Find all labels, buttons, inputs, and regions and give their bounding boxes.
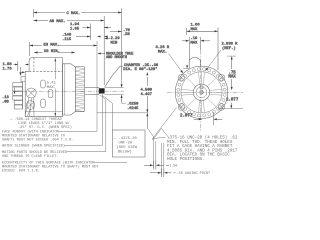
svg-text:EXCEED .004 T.I.R.: EXCEED .004 T.I.R. [2,170,40,174]
mounting flange serrated column [75,67,84,112]
dimension 2.077 right vertical [219,99,244,109]
dimension 4.500 / 4.497 [141,72,153,128]
leader eccentricity [94,161,128,163]
label SHOULDER TRUE AND SMOOTH [97,52,133,60]
leader mating parts [67,151,106,153]
leader from circle to hole note [152,108,177,140]
svg-text:.25″ ST. G.C. (WHEN SPEC): .25″ ST. G.C. (WHEN SPEC) [18,125,72,130]
svg-text:3.26 R: 3.26 R [156,46,170,50]
water slinger leader vertical [102,94,104,145]
svg-text:UNF-2A: UNF-2A [119,142,133,146]
motor body [25,58,62,117]
dimension .70 / .58 [110,29,131,37]
note face runout [2,130,73,143]
svg-text:MIN: MIN [111,41,118,45]
dimension .13 / .08 [2,88,15,105]
svg-text:DIA. E 80°-120°: DIA. E 80°-120° [123,67,157,72]
lifting bump on top [189,57,200,68]
svg-text:MAX: MAX [228,76,236,80]
horizontal centerline [167,91,243,93]
svg-text:AG MAX.: AG MAX. [50,20,66,24]
label 2.938 R (REF.) [205,43,238,72]
svg-text:1.50: 1.50 [169,165,177,169]
svg-text:1.88: 1.88 [3,63,13,67]
note eccentricity [2,161,99,174]
conduit fitting on left side [13,77,25,109]
grease plug circle lower [26,101,35,110]
shaft key (filled) [99,88,105,93]
dimension AG MAX [34,16,105,85]
gaging row .50 gaging point [150,169,210,178]
label 3.26 R MAX [156,46,184,74]
svg-text:2.077: 2.077 [180,115,193,119]
svg-text:1.94: 1.94 [70,23,80,27]
shaft [85,88,99,95]
dimension 2.077 bottom horizontal [180,112,222,125]
svg-text:.50 GAGING POINT: .50 GAGING POINT [177,172,211,176]
svg-text:HOLE POSITIONS.: HOLE POSITIONS. [167,158,205,162]
svg-text:AND SMOOTH: AND SMOOTH [106,56,127,60]
svg-text:2.077: 2.077 [226,99,239,103]
svg-text:4.500: 4.500 [141,89,153,93]
svg-text:ONE THREAD TO CLEAR FILLET.: ONE THREAD TO CLEAR FILLET. [2,155,59,159]
svg-text:.375-16 UNC-2B (4 HOLES) .62: .375-16 UNC-2B (4 HOLES) .62 [167,136,238,141]
svg-text:.08: .08 [2,101,10,105]
short extension left of bump [183,67,189,69]
dimension 2.29 MIN [104,37,120,45]
svg-text:(SEE VIEW: (SEE VIEW [117,145,138,150]
mounting boss holes with cross [178,74,225,110]
dimension 1.66 MAX [187,24,219,71]
svg-text:— .4375-20: — .4375-20 [113,137,138,141]
end bracket [63,64,76,115]
serration hole ring [177,68,226,117]
gaging horizontal line [97,112,147,114]
note box 4375-20 UNF-2A [112,130,145,157]
vertical centerline [200,50,202,131]
svg-text:C MAX.: C MAX. [67,12,81,16]
label CHAMFER [105,64,159,87]
svg-text:.115: .115 [62,38,72,42]
note 500-14 conduit thread [9,118,72,130]
svg-text:(REF.): (REF.) [222,46,236,51]
dimension .19 MAX [182,37,210,69]
conduit box on top of motor [29,58,62,72]
dimension .6250 / .6245 [122,99,140,112]
grease plug circle upper [26,88,36,98]
svg-text:CHAMFER .25-.38: CHAMFER .25-.38 [124,64,159,68]
svg-text:XS MIN.: XS MIN. [44,50,60,54]
leader face runout [59,131,98,133]
dimension .75 MAX right [227,56,236,90]
svg-text:SHAFT) MUST NOT EXCEED .004 T.: SHAFT) MUST NOT EXCEED .004 T.I.R. [2,138,73,143]
leader to gaging rows [147,128,169,175]
hub [193,84,209,100]
spokes [181,72,222,112]
end shield outer circle [175,66,227,118]
svg-text:.140: .140 [62,34,72,38]
note water slinger [2,144,65,149]
svg-text:1.76: 1.76 [3,68,13,72]
svg-text:4.497: 4.497 [141,93,152,97]
dimension XS MIN [34,50,75,54]
gaging row 1.50 [144,161,177,170]
extension line mounting face [96,41,98,131]
vent slots [41,80,53,108]
leader fan to conduit note [25,98,34,117]
dimension 1.94 / 1.85 [70,23,111,40]
svg-text:EH MAX.: EH MAX. [44,43,60,47]
svg-text:.6250: .6250 [127,103,139,107]
svg-text:1.85: 1.85 [70,28,80,32]
dimension 5.41 MAX [54,58,56,116]
svg-text:BELOW): BELOW) [118,150,132,155]
svg-text:.58: .58 [123,33,131,37]
dimension C MAX [34,9,122,81]
inner rim circle [181,72,222,113]
leader arrow at seam [20,71,26,73]
svg-text:1.66: 1.66 [191,24,201,28]
dimension .140 / .115 [62,34,108,43]
shaft centerline [14,90,124,92]
svg-text:WATER SLINGER (WHEN SPECIFIED): WATER SLINGER (WHEN SPECIFIED) [2,144,65,149]
dimension EH MAX [30,42,98,56]
leader water slinger [65,144,103,146]
note 375-16 UNC-2B holes [167,136,238,162]
note mating parts [2,151,67,159]
svg-text:MAX.: MAX. [158,51,167,55]
svg-text:MAX: MAX [191,41,199,45]
dimension 1.88 / 1.76 [3,61,30,76]
shaft diameter extension lines and arrows [105,80,124,102]
svg-text:.13: .13 [2,96,10,100]
svg-text:.6245: .6245 [127,107,139,111]
leader lines from shaft end to notes below [100,95,113,152]
